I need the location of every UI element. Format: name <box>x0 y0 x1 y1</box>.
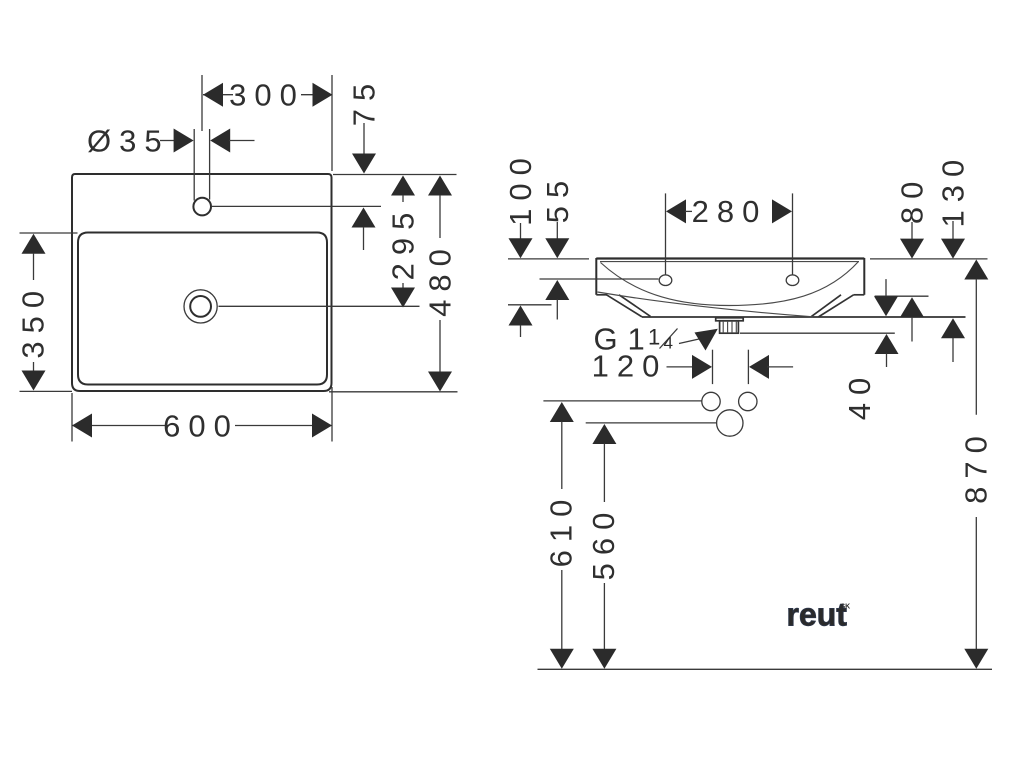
dim 40 arrow down <box>874 296 898 316</box>
dim 295 shaft lower <box>402 283 404 288</box>
dim 80 bottom extension <box>875 295 929 297</box>
outline diagonal right <box>819 295 854 317</box>
dim 80 arrow down <box>900 239 924 259</box>
dim 120 arrow right (points right) <box>692 355 712 379</box>
basin bottom tick right <box>854 294 865 296</box>
dim 295 arrow up <box>391 176 415 196</box>
drain fitting body <box>720 321 739 333</box>
dim 610 shaft lower <box>561 570 563 649</box>
dim 55 arrow down <box>545 238 569 258</box>
hole tangent line left (Ø35) <box>193 129 195 201</box>
drain leader line <box>219 305 420 307</box>
ground line <box>538 668 993 670</box>
dim 55 lower tail <box>556 300 558 320</box>
dim 610 shaft upper <box>561 422 563 490</box>
dim 295 arrow down (to drain line) <box>391 288 415 308</box>
dim 560 arrow down <box>592 649 616 669</box>
hole tangent line right (Ø35) <box>209 129 211 200</box>
dim 130 arrow up <box>941 318 965 338</box>
basin bottom tick left <box>596 294 607 296</box>
drain fitting thread line 3 <box>731 321 733 333</box>
drain inner circle <box>190 296 211 317</box>
svg-text:280: 280 <box>692 194 768 229</box>
dim 55 shaft <box>556 222 558 240</box>
inner diagonal left (bracket) <box>619 295 651 317</box>
dim 100 lower tail <box>520 325 522 337</box>
dim 75 arrow down (to basin top edge) <box>352 154 376 174</box>
dim 610 arrow up <box>550 402 574 422</box>
overflow hole left <box>659 275 672 286</box>
svg-text:295: 295 <box>386 205 421 281</box>
svg-text:350: 350 <box>16 283 51 359</box>
Ø35 leader right <box>229 140 255 142</box>
svg-text:600: 600 <box>163 408 239 443</box>
siphon hole leader line <box>586 422 717 424</box>
dim 80 arrow up <box>900 297 924 317</box>
svg-text:130: 130 <box>936 152 971 228</box>
drain fitting thread line 2 <box>727 321 729 333</box>
dim 350 shaft lower <box>33 362 35 371</box>
dim 350 arrow up <box>22 234 46 254</box>
dim 300 arrow right <box>313 83 333 107</box>
dim 75 lower tail <box>363 227 365 250</box>
rim inner line <box>600 261 859 263</box>
dim 40 arrow up <box>875 334 899 354</box>
dim 100 arrow down <box>509 238 533 258</box>
fixing holes leader line <box>543 400 702 402</box>
siphon hole (big circle) <box>717 410 743 436</box>
dim 280 extension left <box>665 193 667 274</box>
svg-text:80: 80 <box>895 174 930 224</box>
G 1 1/4 leader line <box>679 339 699 344</box>
bottom edge extension right <box>329 391 458 393</box>
dim 100 bottom extension <box>508 304 552 306</box>
bowl profile curve <box>601 262 859 306</box>
svg-text:75: 75 <box>347 76 382 126</box>
svg-text:300: 300 <box>229 78 305 113</box>
svg-text:120: 120 <box>592 349 668 384</box>
dim 75 shaft upper <box>363 123 365 155</box>
basin right edge extension (300 right) <box>331 75 333 171</box>
dim 870 arrow down <box>964 649 988 669</box>
dim 560 shaft lower <box>603 583 605 649</box>
G 1 1/4 leader arrow <box>695 329 718 351</box>
dim 350 top extension <box>20 232 78 234</box>
dim 480 shaft upper <box>439 195 441 238</box>
dim 600 arrow right <box>312 414 332 438</box>
basin outer rim rect <box>72 174 332 391</box>
top edge extension right <box>333 174 457 176</box>
basin inner bowl rect <box>78 233 327 385</box>
dim 560 shaft upper <box>603 444 605 503</box>
drain fitting flange <box>716 318 744 321</box>
dim 100 arrow up <box>509 306 533 326</box>
dim 280 arrow left <box>666 199 686 223</box>
rim top edge <box>596 257 864 259</box>
dim 80 shaft <box>911 222 913 240</box>
svg-text:870: 870 <box>959 428 994 504</box>
dim 870 shaft lower <box>975 517 977 649</box>
inner diagonal right (bracket) <box>811 295 841 317</box>
dim 870 shaft upper <box>975 279 977 415</box>
Ø35 leader left <box>160 140 175 142</box>
overflow hole leader left <box>540 278 659 280</box>
drain fitting thread line 4 <box>735 321 737 333</box>
drain fitting thread line 1 <box>722 321 724 333</box>
dim 280 arrow right <box>772 199 792 223</box>
fixing hole left <box>702 392 720 410</box>
dim 600 line right part <box>235 425 332 427</box>
fixing hole right <box>739 392 757 410</box>
svg-text:1: 1 <box>648 325 660 350</box>
dim 300 line left part <box>203 94 233 96</box>
dim 100 shaft <box>520 223 522 240</box>
dim 350 shaft upper <box>33 253 35 280</box>
dim 600 line left part <box>72 425 168 427</box>
svg-text:100: 100 <box>503 150 538 226</box>
basin bottom flat + extension line to right <box>642 316 966 318</box>
svg-text:40: 40 <box>842 370 877 420</box>
dim 300 arrow left <box>203 83 223 107</box>
dim 120 line right <box>747 350 749 384</box>
dim 40 lower tail <box>886 354 888 368</box>
bowl underside curve <box>598 292 814 317</box>
dim 280 extension right <box>792 193 794 274</box>
faucet hole <box>193 198 211 216</box>
dim 600 right extension <box>331 387 333 442</box>
dim 560 arrow up <box>592 424 616 444</box>
dim 75 arrow up (to hole centerline) <box>352 208 376 228</box>
rim top extension left <box>508 258 589 260</box>
svg-text:480: 480 <box>423 241 458 317</box>
dim 870 arrow up <box>964 260 988 280</box>
dim 600 left extension <box>71 393 73 442</box>
svg-text:55: 55 <box>540 173 575 223</box>
svg-text:reut: reut <box>787 597 848 633</box>
Ø35 arrow right (points left) <box>210 129 230 153</box>
dim 120 arrow left (points left) <box>749 355 769 379</box>
G 1 1/4 fraction slash <box>660 329 678 349</box>
dim 280 leader left <box>685 210 692 212</box>
drain outer circle <box>184 290 217 323</box>
rim top extension right <box>870 258 988 260</box>
dim 80 lower tail <box>911 317 913 342</box>
dim 120 line left <box>712 350 714 384</box>
dim 300 line right part <box>301 94 332 96</box>
dim 350 bottom extension <box>20 390 73 392</box>
outline diagonal left <box>607 295 643 317</box>
dim 480 arrow down (to basin bottom line) <box>428 372 452 392</box>
dim 295 shaft upper <box>402 195 404 202</box>
dim 130 lower tail <box>952 338 954 362</box>
dim 480 shaft lower <box>439 320 441 372</box>
svg-text:SK: SK <box>841 604 851 611</box>
drain bottom extension <box>740 332 895 334</box>
overflow hole right <box>786 275 799 286</box>
dim 55 arrow up <box>545 280 569 300</box>
dim 130 shaft <box>952 221 954 240</box>
dim 130 arrow down <box>941 239 965 259</box>
dim 610 arrow down <box>550 649 574 669</box>
faucet hole centerline (300 left extension) <box>201 75 203 131</box>
hole leader line <box>212 205 381 207</box>
svg-text:610: 610 <box>544 492 579 568</box>
dim 120 leader right <box>767 366 793 368</box>
dim 600 arrow left <box>72 414 92 438</box>
dim 350 arrow down <box>22 371 46 391</box>
dim 120 leader left <box>667 366 695 368</box>
basin right edge <box>863 258 865 295</box>
dim 40 upper tail <box>885 279 887 297</box>
Ø35 arrow left (points right) <box>174 129 194 153</box>
svg-text:560: 560 <box>586 505 621 581</box>
svg-text:Ø35: Ø35 <box>87 124 170 159</box>
basin left edge <box>595 258 597 295</box>
dim 480 arrow up <box>428 176 452 196</box>
